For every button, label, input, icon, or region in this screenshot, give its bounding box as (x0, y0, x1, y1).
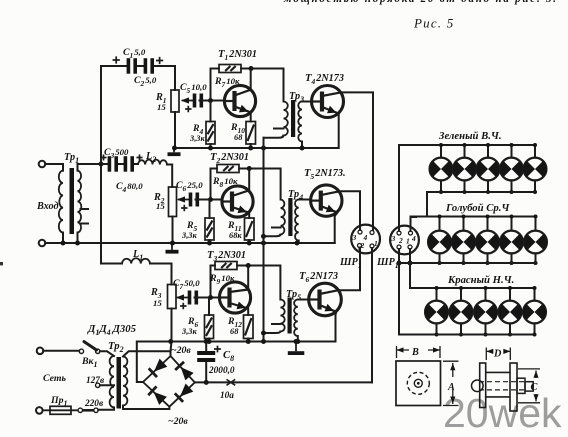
wire T4 emitter to rail (338, 114, 340, 149)
wiper arrow R3 (177, 297, 190, 299)
connector SR1 plug (351, 225, 380, 254)
wire plus bus (195, 381, 372, 383)
junction blue rail top 3 (486, 215, 490, 219)
wire green lamp 2 stubs (464, 145, 466, 192)
svg-text:Вход: Вход (36, 201, 59, 212)
wire T3 emitter to R12 (247, 309, 249, 316)
mech bobbin nut (517, 378, 525, 393)
junction Tp3 secondary rail (300, 146, 305, 151)
dimension B (397, 346, 441, 358)
wire between contacts (83, 409, 94, 412)
lamp blue L2 (452, 231, 475, 254)
wire R9 to collector column (237, 266, 280, 300)
polarity + left of C1 (113, 56, 120, 63)
junction green rail top 3 (486, 143, 490, 147)
wire blue lamp 5 stubs (535, 217, 537, 264)
wire T5 emitter exit (335, 213, 338, 217)
polarity + C5 (185, 106, 191, 112)
wiper arrow R1 (182, 100, 195, 102)
wire T3 collector (247, 266, 249, 290)
svg-text:В: В (411, 347, 419, 358)
wire bridge left corner to minus rail (137, 342, 143, 383)
resistor R6 (205, 315, 214, 339)
junction blue rail bottom 2 (462, 261, 466, 265)
resistor R9 (215, 262, 237, 270)
lamp blue L3 (476, 231, 499, 254)
wire T2 emitter to R11 (248, 213, 250, 218)
transformer Tp3 primary winding (284, 102, 288, 136)
transformer Tp2 primary winding (110, 356, 114, 407)
svg-text:4: 4 (411, 234, 416, 243)
junction C8 rail (204, 339, 209, 344)
wire SR plug pin1 down to bus (371, 248, 373, 382)
svg-text:2000,0: 2000,0 (208, 366, 235, 376)
wire green lamp 1 stubs (440, 145, 442, 192)
wire SR socket pin4 up blue (411, 217, 417, 231)
capacitor C3 (108, 156, 118, 172)
wire mains upper (43, 350, 79, 352)
wire Tp3 to T4 base (302, 101, 312, 103)
junction ch3 collector top (246, 263, 251, 268)
ground ch1 (173, 148, 175, 152)
transistor T5 2N173 (311, 185, 342, 216)
wire switch to Tp2 primary top (100, 351, 114, 356)
transformer Tp5 core (288, 298, 292, 334)
capacitor C8 (197, 351, 215, 362)
transformer Tp1 core (70, 168, 75, 234)
junction R5 rail (207, 241, 212, 246)
wire ch3 common rail (137, 341, 336, 343)
junction ch1 collector top (249, 66, 254, 71)
junction red rail top 5 (533, 286, 537, 290)
junction ch1 base (208, 98, 213, 103)
polarity + left of C3 (101, 155, 107, 161)
potentiometer R1 (171, 90, 179, 112)
junction red rail top 3 (484, 286, 488, 290)
wire R12 bottom stub (247, 339, 249, 342)
lamp green L2 (453, 158, 476, 181)
junction red rail top 2 (459, 286, 463, 290)
wire R7 to collector column (241, 69, 284, 102)
wire red lamp 4 stubs (509, 288, 511, 335)
terminal mains upper (37, 348, 44, 355)
wire Tp1 secondary top (78, 164, 108, 171)
wire L1 to R3 (150, 264, 172, 285)
wire green bottom to blue top (426, 192, 428, 217)
diode bridge outline (143, 356, 195, 407)
junction ch2 base (208, 197, 213, 202)
inductor L2 (138, 160, 167, 165)
wire Tp5 secondary bottom (297, 336, 299, 342)
wiper arrow R2 (178, 199, 191, 201)
transistor T6 2N173 (309, 283, 342, 316)
svg-text:А: А (447, 382, 455, 393)
wire red lamp 1 stubs (436, 288, 438, 335)
transformer Tp5 secondary winding (294, 300, 298, 337)
wire Tp3 primary tap stub (274, 128, 284, 130)
transformer Tp2 core (117, 357, 122, 409)
junction R2 rail (170, 241, 175, 246)
lamp blue L4 (500, 231, 523, 254)
wire blue lamp 1 stubs (439, 217, 441, 264)
junction blue rail top 5 (534, 215, 538, 219)
junction blue rail top 1 (438, 215, 442, 219)
wire blue lamp 2 stubs (463, 217, 465, 264)
mech bobbin left flange (480, 363, 486, 408)
junction primary return ch1 rail (261, 146, 266, 151)
resistor R7 (219, 65, 241, 73)
dimension A (443, 361, 459, 405)
fuse Pr1 (43, 406, 79, 414)
connector SR1 socket (390, 226, 419, 255)
scan artifact left edge (0, 262, 3, 265)
svg-text:Зеленый В.Ч.: Зеленый В.Ч. (438, 130, 502, 142)
switch Vk1 contact left (79, 349, 83, 353)
transformer Tp4 primary winding (281, 200, 285, 235)
contact after fuse right (94, 408, 98, 412)
polarity + right of C2 (156, 57, 163, 64)
ground ch2 (171, 243, 173, 250)
wire ch2 input row (101, 163, 138, 165)
junction red rail bottom 1 (435, 333, 439, 337)
wire filter corner to L1 (101, 263, 122, 265)
junction R4 rail (208, 146, 213, 151)
capacitor C1 (127, 58, 137, 73)
junction ch2 collector top (247, 166, 252, 171)
mech bobbin axis dashed (479, 382, 524, 390)
diode D3 (154, 392, 167, 405)
svg-text:3,3к: 3,3к (181, 327, 197, 336)
svg-text:68: 68 (234, 133, 243, 142)
wire green bottom rail (427, 191, 535, 193)
svg-text:С: С (531, 382, 538, 393)
wire red lamp 2 stubs (460, 288, 462, 335)
lamp green L5 (524, 158, 547, 181)
junction node input-filters (99, 162, 104, 167)
wire C7 to T3 base (195, 297, 220, 299)
wire filter feed vertical (100, 66, 102, 264)
svg-text:Т32N301: Т32N301 (207, 249, 246, 263)
wire R5 stubs (209, 200, 211, 244)
wire R10 bottom stub (250, 144, 252, 148)
transformer Tp3 core (291, 100, 295, 137)
contact after fuse left (78, 408, 82, 412)
lamp green L4 (500, 158, 523, 181)
wire C8 bottom stub (205, 362, 207, 382)
wire SR plug pin2 to T6 (359, 248, 361, 250)
svg-text:Рис. 5: Рис. 5 (413, 16, 454, 31)
junction Tp4 secondary rail (295, 241, 300, 246)
svg-text:15: 15 (153, 298, 162, 308)
mech square plate outline (396, 361, 441, 406)
transistor T3 2N301 (219, 282, 250, 313)
wire L2 to R2 (167, 165, 172, 188)
junction blue bottom common (397, 261, 402, 266)
junction R1 rail (172, 146, 177, 151)
transformer Tp4 core (288, 198, 292, 236)
svg-text:Сеть: Сеть (43, 373, 66, 384)
mech bobbin bolt head (472, 380, 484, 392)
lamp green L3 (477, 158, 500, 181)
wire Tp1 secondary tap 1 (81, 208, 89, 210)
wire Tp1 secondary tap 2 (81, 223, 89, 225)
svg-text:Голубой Ср.Ч: Голубой Ср.Ч (445, 202, 510, 214)
svg-text:68: 68 (230, 327, 239, 336)
junction green rail bottom 4 (510, 190, 514, 194)
svg-text:Т22N301: Т22N301 (210, 151, 249, 165)
junction R10 rail (248, 146, 253, 151)
junction blue rail top 4 (510, 215, 514, 219)
junction R6 rail (207, 339, 212, 344)
lamp red L2 (450, 301, 473, 324)
wire SR socket pin3 up green (398, 145, 400, 231)
wire T6 emitter to rail (335, 315, 337, 342)
capacitor C7 (188, 291, 198, 305)
junction R12 rail (246, 339, 251, 344)
polarity + C7 (180, 303, 186, 309)
transformer Tp2 secondary winding (123, 357, 127, 406)
wire T1 collector (250, 69, 252, 90)
junction blue rail bottom 4 (510, 261, 514, 265)
resistor R8 (217, 165, 239, 173)
wire T2 collector (248, 169, 250, 191)
junction Tp1 secondary bottom (75, 241, 80, 246)
wire R2 bottom to rail (172, 217, 174, 244)
svg-text:220в: 220в (84, 399, 103, 409)
wire 127v tap (100, 384, 114, 386)
wire C8 top stub (205, 342, 207, 352)
wire blue lamp 4 stubs (511, 217, 513, 264)
wire T6 emitter exit (335, 312, 338, 315)
svg-text:2: 2 (398, 236, 403, 245)
junction Tp1 primary bottom (61, 241, 66, 246)
polarity + C8 (214, 346, 221, 353)
svg-text:1: 1 (374, 239, 378, 248)
junction red rail bottom 5 (533, 333, 537, 337)
svg-text:D: D (493, 349, 502, 360)
wire T4 collector to SR plug (341, 92, 373, 230)
svg-text:Красный Н.Ч.: Красный Н.Ч. (447, 274, 514, 286)
junction red rail bottom 4 (508, 333, 512, 337)
capacitor C6 (189, 193, 199, 207)
mech square center hole (414, 379, 422, 387)
svg-text:15: 15 (157, 102, 166, 112)
svg-text:10а: 10а (220, 391, 234, 401)
junction blue rail top 2 (462, 215, 466, 219)
wire ch1 top row (101, 66, 175, 90)
junction red top feed (408, 261, 413, 266)
wire Tp5 to T6 base (298, 299, 309, 301)
diode D4 (180, 384, 193, 397)
wire Tp3 primary bottom (264, 136, 284, 138)
resistor R11 (245, 218, 255, 240)
switch Vk1 lever (84, 342, 97, 350)
wire T1 emitter to R10 (250, 112, 252, 121)
wire blue top rail (411, 216, 536, 218)
svg-text:Д1Д4Д305: Д1Д4Д305 (87, 323, 137, 337)
inductor L1 (122, 258, 150, 263)
svg-text:127в: 127в (86, 376, 104, 386)
junction green rail bottom 3 (486, 190, 490, 194)
wire R11 bottom stub (248, 240, 250, 243)
wire ch2 base column (211, 169, 218, 200)
junction R3 rail bridge (168, 339, 173, 344)
resistor R4 (206, 122, 215, 145)
transformer Tp4 secondary winding (295, 200, 299, 241)
junction blue rail bottom 5 (534, 261, 538, 265)
polarity + C6 (181, 205, 187, 211)
junction green rail bottom 2 (463, 190, 467, 194)
input terminal lower (39, 240, 46, 247)
wire Tp2 secondary bottom to bridge (123, 406, 169, 410)
diode D1 (154, 359, 167, 372)
wire green lamp 3 stubs (487, 145, 489, 192)
wire blue bottom to red top (409, 263, 411, 288)
junction green rail bottom 1 (439, 190, 443, 194)
wire ch2 common rail (bottom input line) (45, 242, 335, 244)
junction red rail bottom 3 (484, 333, 488, 337)
capacitor C5 (193, 94, 203, 108)
svg-text:15: 15 (156, 201, 165, 211)
junction green rail top 4 (510, 143, 514, 147)
wire Tp3 secondary bottom (301, 142, 303, 149)
wire ch1 common rail (174, 147, 339, 149)
wire red bottom rail (399, 334, 535, 336)
wire input upper to Tp1 (45, 164, 63, 171)
tap 127v terminal (96, 383, 100, 387)
resistor R5 (205, 218, 214, 240)
wire Tp5 primary tap stub (272, 323, 280, 325)
transformer Tp3 secondary winding (298, 102, 302, 142)
junction blue rail bottom 3 (486, 261, 490, 265)
wire red lamp 3 stubs (485, 288, 487, 335)
junction primary return Tp4 (261, 234, 266, 239)
resistor R10 (246, 122, 256, 145)
junction ch3 base (208, 295, 213, 300)
junction green rail top 5 (533, 143, 537, 147)
mech bobbin shaft end (525, 382, 533, 391)
svg-text:~20в: ~20в (171, 345, 191, 356)
junction Tp5 secondary rail (295, 339, 300, 344)
junction ground ch3 rail (294, 339, 299, 344)
junction red rail top 1 (435, 286, 439, 290)
lamp green L1 (430, 158, 453, 181)
wire SR socket pin2 down common (398, 249, 400, 335)
transformer Tp1 primary winding (59, 171, 63, 233)
junction C8 bus (204, 380, 209, 385)
fuse 10a X symbol (227, 379, 236, 385)
wire T5 collector to SR plug (339, 191, 360, 230)
junction R11 rail (247, 241, 252, 246)
wire Tp4 primary tap stub (272, 227, 281, 229)
mech square dashed circle (407, 372, 429, 394)
junction primary return Tp5 (261, 331, 266, 336)
polarity + right of C4 (137, 155, 143, 161)
dimension D (486, 348, 510, 361)
potentiometer R3 (168, 285, 177, 309)
wire red lamp 5 stubs (534, 288, 536, 335)
svg-text:Т12N301: Т12N301 (218, 48, 257, 62)
wire 220v to Tp2 primary bottom (98, 407, 114, 409)
junction green rail top 1 (439, 143, 443, 147)
wire C6 to T2 base (196, 199, 223, 201)
ground ch3 (295, 342, 297, 352)
potentiometer R2 (169, 187, 177, 217)
junction green rail top 2 (463, 143, 467, 147)
svg-text:3: 3 (352, 233, 357, 242)
junction green rail bottom 5 (533, 190, 537, 194)
wire Tp4 primary bottom (264, 235, 281, 237)
resistor R12 (244, 315, 254, 339)
wire T5 emitter to rail (334, 216, 336, 243)
wire T6 collector to SR plug (339, 249, 361, 290)
lamp red L1 (425, 301, 448, 324)
mech bobbin tube (486, 372, 510, 397)
wire Tp5 primary bottom (264, 332, 281, 334)
svg-text:68к: 68к (229, 231, 242, 240)
capacitor C4 (124, 156, 134, 172)
svg-text:Т42N173: Т42N173 (305, 72, 344, 86)
wire ch1 base column (211, 69, 220, 101)
wire red top rail (410, 287, 535, 289)
wire R6 stubs (208, 298, 210, 342)
transformer Tp1 secondary winding (78, 171, 82, 233)
lamp red L5 (523, 301, 546, 324)
wire Tp4 to T5 base (299, 199, 311, 201)
svg-text:~20в: ~20в (168, 416, 188, 427)
diode D2 (181, 367, 194, 380)
terminal mains lower (36, 407, 43, 414)
junction red rail top 4 (508, 286, 512, 290)
transistor T2 2N301 (222, 186, 253, 217)
wire R1 bottom to rail (174, 112, 176, 148)
junction primary return ch3 rail (261, 339, 266, 344)
lamp blue L5 (524, 231, 547, 254)
transformer Tp5 primary winding (280, 300, 284, 332)
wire Tp1 primary bottom (62, 233, 64, 244)
switch Vk1 contact right (96, 349, 100, 353)
wire SR socket pin1 down red (409, 249, 411, 288)
svg-text:3,3к: 3,3к (181, 231, 197, 240)
svg-text:Т62N173: Т62N173 (299, 270, 338, 284)
lamp blue L1 (428, 231, 451, 254)
wire blue lamp 3 stubs (487, 217, 489, 264)
junction blue rail bottom 1 (438, 261, 442, 265)
wire Tp4 secondary bottom (298, 241, 300, 244)
wire ch3 base column (211, 266, 216, 298)
wire R8 to collector column (239, 169, 281, 200)
transistor T4 2N173 (312, 86, 344, 118)
wire Tp1 secondary bottom (77, 233, 79, 244)
dimension C (518, 369, 540, 403)
junction red rail bottom 2 (459, 333, 463, 337)
lamp red L3 (474, 301, 497, 324)
wire green lamp 5 stubs (534, 145, 536, 192)
wire C5 to T1 base (200, 100, 225, 102)
svg-text:3,3к: 3,3к (189, 134, 205, 143)
svg-text:3: 3 (391, 234, 396, 243)
wire R4 stubs (210, 101, 212, 149)
wire Tp2 secondary top to bridge (123, 351, 171, 356)
wire R3 bottom to rail and bridge (171, 309, 172, 357)
wire green top rail (399, 144, 535, 146)
input terminal upper (39, 161, 46, 168)
lamp red L4 (499, 301, 522, 324)
svg-text:1: 1 (406, 237, 410, 246)
junction primary return ch2 rail (261, 241, 266, 246)
wire primary return bus (263, 138, 265, 342)
transistor T1 2N301 (224, 85, 255, 116)
